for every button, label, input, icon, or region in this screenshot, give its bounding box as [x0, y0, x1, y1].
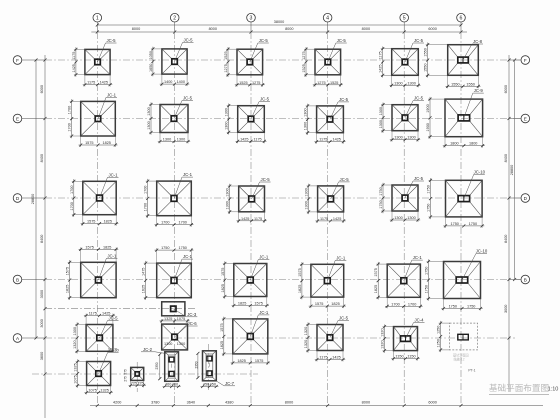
svg-text:1300: 1300	[407, 216, 415, 220]
svg-text:1700: 1700	[70, 185, 74, 193]
svg-text:2350: 2350	[155, 362, 159, 369]
footing JC-5 row A col 4	[304, 316, 349, 362]
footing JC-5 row D col 5	[379, 176, 424, 222]
footing JC-1 row E col 1	[68, 92, 118, 147]
footing JC-5 row F col 1	[72, 38, 117, 87]
svg-text:8400: 8400	[504, 154, 508, 162]
svg-text:JC-1: JC-1	[107, 253, 117, 258]
horizontal axis line D	[45, 197, 521, 199]
svg-text:3600: 3600	[40, 352, 44, 360]
svg-text:1300: 1300	[164, 342, 172, 346]
footing JC-8 row F col 6	[424, 39, 483, 88]
svg-text:1075: 1075	[177, 317, 185, 321]
grid bubble 1 (top)	[93, 13, 102, 32]
svg-text:1050: 1050	[149, 51, 153, 59]
vertical axis line 2	[174, 32, 176, 403]
svg-text:JC-5: JC-5	[259, 38, 269, 43]
svg-text:1825: 1825	[238, 302, 246, 306]
svg-text:1800: 1800	[469, 142, 477, 146]
footing JC-1 row B col 1	[66, 245, 119, 300]
grid bubble E (right)	[509, 114, 530, 123]
svg-text:1175: 1175	[254, 137, 262, 141]
svg-text:JC-3b: JC-3b	[107, 348, 119, 353]
overall right dimension 28800	[510, 59, 516, 282]
footing JC-1 row A col 3	[220, 310, 270, 365]
svg-text:1550: 1550	[424, 63, 428, 71]
svg-text:1300: 1300	[226, 188, 230, 196]
svg-text:1300: 1300	[305, 201, 309, 209]
svg-text:JC-5: JC-5	[260, 97, 270, 102]
svg-text:1575: 1575	[374, 268, 378, 276]
svg-text:1525: 1525	[239, 81, 247, 85]
footing JC-5 row E col 2	[147, 96, 193, 144]
vertical axis line 6	[460, 32, 462, 403]
svg-text:1150: 1150	[395, 355, 403, 359]
grid bubble A (left)	[13, 334, 45, 343]
bottom footing axis line	[32, 373, 258, 375]
svg-text:1300: 1300	[163, 138, 171, 142]
svg-text:1300: 1300	[379, 107, 383, 115]
svg-text:1300: 1300	[394, 81, 402, 85]
svg-text:1300: 1300	[304, 108, 308, 116]
svg-text:1825: 1825	[104, 220, 112, 224]
svg-text:8000: 8000	[362, 401, 370, 405]
svg-text:1300: 1300	[226, 201, 230, 209]
svg-text:1575: 1575	[85, 245, 93, 249]
svg-text:PT-1: PT-1	[468, 369, 475, 373]
horizontal axis line A	[45, 337, 515, 339]
svg-text:1700: 1700	[144, 203, 148, 211]
svg-text:1075: 1075	[74, 375, 78, 383]
top segment dimensions 8000/8000/8000/8000/6000	[91, 27, 467, 33]
svg-text:575: 575	[124, 369, 128, 375]
footing JC-5 row F col 5	[379, 38, 424, 87]
svg-text:1: 1	[96, 16, 99, 22]
svg-text:1300: 1300	[394, 216, 402, 220]
svg-text:1750: 1750	[469, 222, 477, 226]
svg-text:3780: 3780	[151, 401, 159, 405]
svg-text:1750: 1750	[178, 246, 186, 250]
svg-text:5: 5	[403, 16, 406, 22]
svg-text:1575: 1575	[255, 359, 263, 363]
footing JC-5 row F col 4	[302, 38, 347, 87]
svg-text:8400: 8400	[40, 235, 44, 243]
svg-text:JC-6: JC-6	[188, 321, 198, 326]
right segment dimensions 6000/8400/8400/3000	[504, 55, 510, 392]
svg-text:8400: 8400	[40, 154, 44, 162]
svg-text:1320: 1320	[381, 328, 385, 336]
svg-text:JC-3: JC-3	[187, 312, 197, 317]
svg-text:1275: 1275	[252, 81, 260, 85]
footing JC-1 row B col 4	[298, 255, 346, 308]
svg-text:3000: 3000	[504, 305, 508, 313]
svg-text:1650: 1650	[149, 64, 153, 72]
vertical axis line 4	[327, 32, 329, 403]
footing JC-10 row B col 6	[425, 249, 488, 311]
svg-text:1525: 1525	[302, 64, 306, 72]
svg-text:1320: 1320	[73, 340, 77, 348]
footing JC-6 row A col 2	[160, 317, 198, 350]
vertical axis line 5	[403, 32, 405, 403]
svg-text:1700: 1700	[391, 302, 399, 306]
svg-text:1825: 1825	[220, 341, 224, 349]
svg-text:E: E	[524, 116, 527, 121]
svg-text:1825: 1825	[66, 285, 70, 293]
svg-text:1425: 1425	[379, 64, 383, 72]
svg-text:3000: 3000	[40, 319, 44, 327]
svg-text:6000: 6000	[40, 85, 44, 93]
svg-text:1825: 1825	[331, 302, 339, 306]
svg-text:1300: 1300	[177, 138, 185, 142]
svg-text:1825: 1825	[374, 285, 378, 293]
svg-text:1575: 1575	[315, 302, 323, 306]
svg-text:JC-1: JC-1	[259, 255, 269, 260]
svg-text:1425: 1425	[333, 217, 341, 221]
svg-text:1575: 1575	[66, 267, 70, 275]
svg-text:1575: 1575	[254, 302, 262, 306]
svg-text:B: B	[524, 277, 527, 282]
footing JC-5 row D col 4	[305, 177, 350, 223]
svg-text:1750: 1750	[425, 285, 429, 293]
vertical axis line 3	[250, 32, 252, 403]
svg-text:1400: 1400	[164, 80, 172, 84]
svg-text:JC-5: JC-5	[108, 316, 118, 321]
svg-text:JC-9: JC-9	[474, 88, 484, 93]
svg-text:28800: 28800	[510, 165, 514, 176]
svg-text:1275: 1275	[317, 81, 325, 85]
svg-text:1300: 1300	[147, 107, 151, 115]
grid bubble F (right)	[509, 56, 530, 65]
svg-text:1175: 1175	[254, 217, 262, 221]
svg-text:1750: 1750	[379, 200, 383, 208]
svg-text:1250: 1250	[437, 339, 441, 347]
svg-text:450: 450	[210, 383, 216, 387]
footing JC-5 row D col 3	[226, 177, 271, 223]
svg-text:1700: 1700	[144, 186, 148, 194]
svg-text:结施-12: 结施-12	[454, 357, 465, 362]
svg-text:4: 4	[326, 16, 329, 22]
grid bubble F (left)	[13, 56, 45, 65]
svg-text:F: F	[16, 58, 19, 63]
svg-text:JC-4: JC-4	[414, 318, 424, 323]
svg-text:1700: 1700	[68, 106, 72, 114]
svg-text:1300: 1300	[304, 122, 308, 130]
svg-text:3: 3	[250, 16, 253, 22]
svg-text:1320: 1320	[304, 340, 308, 348]
svg-text:JC-1: JC-1	[183, 172, 193, 177]
svg-text:1175: 1175	[320, 217, 328, 221]
footing JC-5 row E col 3	[225, 97, 270, 144]
svg-text:JC-2: JC-2	[143, 347, 153, 352]
overall top dimension 38000	[96, 20, 463, 26]
footing JC-5 row E col 5	[379, 96, 424, 142]
svg-text:1300: 1300	[147, 121, 151, 129]
svg-text:1750: 1750	[450, 222, 458, 226]
svg-text:1750: 1750	[427, 185, 431, 193]
svg-text:1625: 1625	[142, 285, 146, 293]
svg-text:JC-5: JC-5	[339, 316, 349, 321]
svg-text:B: B	[16, 277, 19, 282]
intermediate axis line between B and A	[45, 308, 196, 310]
svg-text:1175: 1175	[379, 51, 383, 59]
svg-text:725: 725	[137, 381, 143, 385]
svg-text:1320: 1320	[381, 340, 385, 348]
svg-text:725: 725	[131, 381, 137, 385]
svg-text:8000: 8000	[285, 27, 293, 31]
svg-text:1700: 1700	[161, 221, 169, 225]
svg-text:1750: 1750	[425, 267, 429, 275]
svg-text:1825: 1825	[298, 285, 302, 293]
bottom dimension line 4200/3780/3640/4380/8000/8000/6000	[90, 401, 543, 408]
svg-text:JC-1: JC-1	[336, 255, 346, 260]
footing JC-1 row B col 5	[374, 255, 423, 308]
footing JC-1 row B col 3	[221, 255, 269, 308]
svg-text:JC-8: JC-8	[473, 39, 483, 44]
svg-text:JC-1: JC-1	[107, 92, 117, 97]
footing JC-3 rectangular (col 2 intermediate axis)	[162, 302, 198, 317]
svg-text:JC-1: JC-1	[108, 172, 118, 177]
svg-text:1300: 1300	[407, 136, 415, 140]
svg-text:1525: 1525	[330, 81, 338, 85]
svg-text:1825: 1825	[102, 141, 110, 145]
svg-text:1275: 1275	[302, 51, 306, 59]
footing JC-1 row D col 1	[70, 172, 119, 225]
svg-text:1700: 1700	[408, 302, 416, 306]
grid bubble B (right)	[509, 275, 530, 284]
svg-text:8000: 8000	[132, 27, 140, 31]
svg-text:6000: 6000	[428, 27, 436, 31]
footing JC-5 row F col 2	[149, 38, 194, 87]
footing JC-5 row F col 3	[224, 38, 269, 87]
pit PT-1 dashed outline (row A col 6)	[437, 321, 478, 373]
drawing title 基础平面布置图 1:100	[489, 382, 558, 395]
grid bubble E (left)	[13, 114, 45, 123]
svg-text:JC-10: JC-10	[476, 249, 488, 254]
svg-text:1550: 1550	[424, 48, 428, 56]
horizontal axis line B	[45, 279, 521, 281]
svg-text:JC-5: JC-5	[261, 177, 271, 182]
svg-text:1575: 1575	[298, 268, 302, 276]
grid bubble B (left)	[13, 275, 45, 284]
svg-text:JC-5: JC-5	[414, 96, 424, 101]
svg-text:1425: 1425	[72, 64, 76, 72]
svg-text:6000: 6000	[504, 85, 508, 93]
svg-text:1320: 1320	[304, 327, 308, 335]
svg-text:1575: 1575	[221, 268, 225, 276]
footing JC-4 row A col 5	[381, 318, 425, 361]
footing JC-3b bottom row col 1	[74, 348, 120, 395]
combined footing JC-7	[195, 351, 235, 388]
svg-text:1425: 1425	[332, 138, 340, 142]
svg-text:1:10: 1:10	[548, 387, 559, 393]
svg-text:JC-5: JC-5	[106, 38, 116, 43]
axis stub x=208	[207, 344, 209, 392]
footing JC-9 row E col 6	[426, 88, 485, 148]
svg-text:1175: 1175	[89, 312, 97, 316]
footing JC-10 row D col 6	[427, 169, 486, 228]
grid bubble 5 (top)	[400, 13, 409, 32]
svg-text:1300: 1300	[305, 188, 309, 196]
svg-text:JC-5: JC-5	[337, 38, 347, 43]
svg-text:1825: 1825	[237, 359, 245, 363]
axis stub x=137	[136, 362, 138, 392]
vertical axis line 1	[96, 32, 98, 403]
grid bubble 4 (top)	[323, 13, 332, 32]
svg-text:4380: 4380	[225, 401, 233, 405]
footing JC-5 row E col 4	[304, 97, 349, 144]
svg-text:JC-5: JC-5	[414, 176, 424, 181]
svg-text:1300: 1300	[379, 120, 383, 128]
svg-text:1300: 1300	[177, 342, 185, 346]
grid bubble D (right)	[509, 194, 530, 203]
svg-text:1150: 1150	[407, 355, 415, 359]
svg-text:4200: 4200	[113, 401, 121, 405]
svg-text:8400: 8400	[504, 235, 508, 243]
svg-text:1300: 1300	[73, 327, 77, 335]
svg-text:1900: 1900	[426, 123, 430, 131]
grid bubble 3 (top)	[247, 13, 256, 32]
svg-text:1425: 1425	[332, 356, 340, 360]
svg-text:1400: 1400	[177, 80, 185, 84]
svg-text:E: E	[16, 116, 19, 121]
svg-text:275: 275	[124, 376, 128, 382]
svg-text:460: 460	[172, 383, 178, 387]
svg-text:1300: 1300	[394, 136, 402, 140]
grid bubble 6 (top)	[457, 13, 466, 32]
svg-text:1750: 1750	[379, 187, 383, 195]
svg-text:JC-5: JC-5	[339, 97, 349, 102]
svg-text:1525: 1525	[224, 51, 228, 59]
svg-text:6000: 6000	[428, 401, 436, 405]
svg-text:1750: 1750	[467, 305, 475, 309]
svg-text:1425: 1425	[102, 312, 110, 316]
combined footing JC-2 below col 2	[155, 352, 181, 388]
svg-text:2: 2	[173, 16, 176, 22]
svg-text:1475: 1475	[142, 268, 146, 276]
svg-text:1900: 1900	[426, 104, 430, 112]
svg-text:1575: 1575	[220, 323, 224, 331]
svg-text:JC-1: JC-1	[413, 255, 423, 260]
svg-text:基础平面布置图: 基础平面布置图	[489, 382, 549, 393]
svg-text:JC-1: JC-1	[259, 310, 269, 315]
svg-text:1425: 1425	[241, 217, 249, 221]
svg-text:28800: 28800	[31, 194, 35, 205]
svg-text:JC-5: JC-5	[183, 96, 193, 101]
svg-text:1700: 1700	[70, 202, 74, 210]
svg-text:JC-10: JC-10	[474, 169, 486, 174]
svg-text:JC-5: JC-5	[414, 38, 424, 43]
svg-text:1325: 1325	[164, 317, 172, 321]
svg-text:1325: 1325	[100, 389, 108, 393]
svg-text:1750: 1750	[161, 246, 169, 250]
footing JC-1 row B col 2	[142, 246, 194, 300]
svg-text:1575: 1575	[87, 220, 95, 224]
svg-text:1250: 1250	[437, 326, 441, 334]
svg-text:JC-5: JC-5	[340, 177, 350, 182]
svg-text:1175: 1175	[72, 52, 76, 60]
svg-text:1175: 1175	[319, 356, 327, 360]
svg-text:1075: 1075	[88, 389, 96, 393]
horizontal axis line F	[45, 59, 521, 61]
svg-text:1425: 1425	[240, 137, 248, 141]
svg-text:8000: 8000	[285, 401, 293, 405]
svg-text:JC-5: JC-5	[183, 38, 193, 43]
left segment dimensions 6000/8400/8400/3000/3000/3800	[40, 55, 46, 418]
grid bubble 2 (top)	[170, 13, 179, 32]
svg-text:38000: 38000	[274, 20, 285, 24]
svg-text:1825: 1825	[221, 284, 225, 292]
svg-text:1325: 1325	[74, 363, 78, 371]
svg-text:3000: 3000	[40, 290, 44, 298]
svg-text:1425: 1425	[100, 81, 108, 85]
svg-text:1300: 1300	[407, 81, 415, 85]
svg-text:6: 6	[460, 16, 463, 22]
footing JC-5 row A col 1	[73, 312, 118, 354]
grid bubble D (left)	[13, 194, 45, 203]
svg-text:8000: 8000	[362, 27, 370, 31]
svg-text:1275: 1275	[224, 64, 228, 72]
footing JC-1 row D col 2	[144, 172, 194, 227]
svg-text:3640: 3640	[187, 401, 195, 405]
svg-text:1700: 1700	[178, 221, 186, 225]
svg-text:450: 450	[203, 383, 209, 387]
small footing bottom row x=137	[124, 367, 146, 387]
svg-text:1700: 1700	[68, 123, 72, 131]
svg-text:1550: 1550	[466, 82, 474, 86]
svg-text:1300: 1300	[225, 108, 229, 116]
svg-text:1575: 1575	[85, 141, 93, 145]
svg-text:1175: 1175	[319, 138, 327, 142]
svg-text:1750: 1750	[427, 204, 431, 212]
svg-text:JC-7: JC-7	[225, 381, 235, 386]
svg-text:1300: 1300	[225, 121, 229, 129]
svg-text:1750: 1750	[449, 305, 457, 309]
svg-text:1175: 1175	[87, 81, 95, 85]
svg-text:F: F	[524, 58, 527, 63]
svg-text:1550: 1550	[451, 82, 459, 86]
svg-text:1825: 1825	[103, 245, 111, 249]
svg-text:460: 460	[165, 383, 171, 387]
overall left dimension 28800	[31, 59, 37, 340]
svg-text:8000: 8000	[209, 27, 217, 31]
horizontal axis line E	[45, 118, 521, 120]
svg-text:1800: 1800	[450, 142, 458, 146]
label JC-2 leader	[141, 347, 166, 354]
